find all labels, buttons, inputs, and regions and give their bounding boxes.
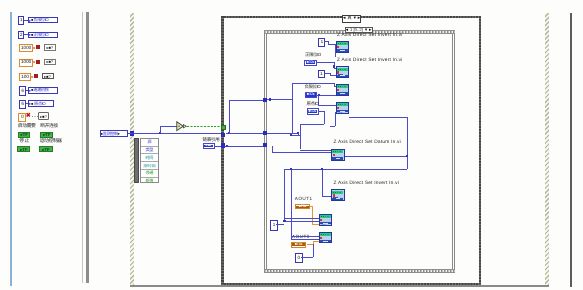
wire bbox=[24, 34, 29, 35]
stub down then to icon U4 bbox=[318, 95, 319, 105]
wire from tunnel A into sequence bbox=[267, 99, 292, 100]
sequence tunnel C bbox=[263, 143, 267, 147]
local variable 负限位IO bbox=[28, 17, 58, 24]
label AOUT1 bbox=[295, 197, 313, 202]
junction bbox=[333, 65, 335, 67]
orange wire AOUT1 to icon U7 bbox=[310, 205, 312, 208]
constant 1 (seq 2) bbox=[318, 70, 325, 79]
wire 原点IO down-left to trunk bbox=[319, 111, 324, 112]
conversion node bbox=[32, 74, 40, 79]
junction bbox=[269, 98, 271, 100]
wire const 0 to icon U8 bbox=[301, 257, 313, 258]
while loop left border bbox=[130, 13, 134, 286]
drop to icon U7 bbox=[284, 169, 285, 221]
orange wire AOUT0 to icon U8 bbox=[307, 243, 313, 246]
subVI icon U8 bbox=[319, 232, 332, 244]
subVI icon U7 bbox=[319, 214, 332, 226]
wires into icon U8 bbox=[291, 236, 319, 237]
dark right vertical line bbox=[570, 13, 572, 287]
constant 6 bbox=[19, 86, 26, 96]
label 启动需要 bbox=[18, 125, 36, 130]
dashed stub bbox=[32, 116, 38, 117]
constant 1 (seq) bbox=[318, 38, 325, 47]
constant 2 bbox=[18, 31, 24, 39]
label 运动控制器 bbox=[40, 140, 62, 145]
blue tunnel on case border (w1) bbox=[221, 133, 225, 137]
label 正限位IO bbox=[305, 53, 321, 57]
subVI icon U1 bbox=[336, 41, 349, 53]
wire bbox=[26, 90, 29, 91]
subVI icon U5 bbox=[331, 149, 344, 161]
terminal 链表引用 bbox=[203, 143, 215, 148]
wire down along icon edge bbox=[335, 44, 336, 57]
boolean terminal TF 4 bbox=[39, 146, 53, 152]
label Z Axis Direct Set Invert In.vi (1) bbox=[337, 34, 403, 39]
invoke node ? bbox=[38, 112, 49, 120]
constant 0 orange bbox=[18, 113, 26, 122]
trunk y135.1 bbox=[291, 135, 300, 136]
wire to case tunnel bbox=[215, 146, 227, 147]
label AOUT0 bbox=[292, 235, 310, 240]
comparison triangle node bbox=[176, 121, 187, 132]
local variable 高速初频 bbox=[28, 87, 58, 94]
junction bbox=[159, 132, 161, 134]
conversion node bbox=[34, 45, 42, 50]
terminal 负限位IO bbox=[305, 92, 318, 98]
left gray double vertical lines bbox=[82, 12, 84, 283]
blue tunnel on case border (w2) bbox=[221, 143, 225, 147]
right long vertical bbox=[407, 117, 408, 169]
case selector label bbox=[342, 15, 362, 23]
boolean terminal TF 2 bbox=[40, 132, 53, 138]
wire w2 inside case bbox=[226, 146, 266, 147]
label 原点IO bbox=[307, 102, 319, 106]
wire from 监测控制 to case tunnel bbox=[128, 133, 223, 134]
sequence selector label bbox=[345, 27, 373, 33]
sequence top film border bbox=[264, 30, 455, 34]
boolean wire (green dashed) to case bbox=[187, 126, 221, 127]
w1 end vertical x298.3 bbox=[298, 133, 299, 135]
subVI icon U2 bbox=[336, 66, 349, 78]
vertical x300 down to icon5 row bbox=[300, 135, 301, 149]
wires into icon U7 bbox=[284, 218, 318, 219]
icon U4 edge vertical bbox=[335, 112, 336, 126]
terminal AOUT1 bbox=[295, 204, 311, 209]
label Z Axis Direct Set Invert In.vi (3) bbox=[334, 182, 400, 187]
subVI icon U3 bbox=[336, 84, 349, 96]
junction bbox=[406, 155, 408, 157]
drop to icon U6 bbox=[322, 169, 323, 196]
wire w1 inside case bbox=[226, 133, 299, 134]
constant 1 (bottom) bbox=[270, 220, 277, 231]
icon U4 out wire to right vertical bbox=[349, 117, 407, 118]
constant 1 bbox=[18, 16, 24, 24]
sequence tunnel B bbox=[263, 131, 267, 135]
w2 vertical x271.7 bbox=[272, 146, 273, 152]
wire trunk top (y83.3) bbox=[292, 83, 334, 84]
while loop right border bbox=[545, 13, 549, 286]
local variable 原点IO bbox=[28, 100, 54, 107]
left blue panel edge line bbox=[10, 12, 11, 286]
boolean terminal TF 3 bbox=[17, 146, 30, 152]
wire const to icon U2 bbox=[324, 73, 331, 74]
label 链表引用 bbox=[203, 138, 220, 143]
constant 0 (bottom) bbox=[295, 253, 303, 262]
wire to sequence tunnel A bbox=[229, 100, 264, 101]
label Z Axis Direct Set Datum In.vi bbox=[334, 141, 401, 146]
subVI icon U6 bbox=[331, 189, 344, 201]
long vertical x292.2 bbox=[292, 83, 293, 133]
vertical from w1 up bbox=[229, 100, 230, 134]
local variable 监测控制 bbox=[100, 130, 128, 137]
terminal 原点IO bbox=[307, 108, 319, 114]
sequence tunnel A bbox=[263, 98, 267, 102]
red x node bbox=[26, 114, 32, 120]
junction bbox=[318, 94, 320, 96]
constant 6 (2) bbox=[19, 100, 26, 109]
sequence bottom film border bbox=[264, 269, 455, 273]
wire bbox=[24, 20, 29, 21]
wire bbox=[26, 103, 29, 104]
boolean terminal TF 1 bbox=[18, 132, 30, 138]
constant 100 bbox=[19, 73, 32, 81]
wire 正限位IO to icon U2 bbox=[317, 62, 334, 63]
invoke node ? bbox=[44, 59, 56, 65]
label 负限位IO bbox=[305, 85, 321, 89]
while loop bottom border bbox=[130, 285, 549, 287]
wire const to junction bbox=[276, 224, 284, 225]
junction dots on trunk bbox=[290, 134, 292, 136]
stacked sequence frame bbox=[264, 30, 455, 273]
conversion node bbox=[34, 60, 42, 65]
terminal 正限位IO bbox=[304, 60, 317, 66]
constant 1000 (2) bbox=[19, 59, 34, 67]
return wire y169 bbox=[284, 169, 406, 170]
event data node bbox=[140, 138, 160, 183]
event data node dark edge bbox=[134, 138, 140, 183]
label 断开连接 bbox=[40, 125, 58, 130]
invoke node ? bbox=[44, 44, 56, 50]
local variable 正限位IO bbox=[28, 32, 58, 39]
wire 负限位IO to icon U3 bbox=[317, 95, 336, 96]
drop to icon U8 bbox=[291, 169, 292, 239]
junction on w2 bbox=[226, 145, 228, 147]
invoke node ? bbox=[42, 73, 54, 79]
label 停止 bbox=[19, 140, 29, 145]
wire up to triangle bbox=[160, 126, 161, 133]
constant 1000 bbox=[19, 44, 34, 52]
green tunnel on case border bbox=[221, 125, 226, 130]
terminal AOUT0 bbox=[291, 242, 307, 248]
subVI icon U4 bbox=[336, 102, 349, 114]
case structure (true case) frame bbox=[221, 16, 481, 286]
wire const1 to icon U1 bbox=[324, 41, 328, 42]
icon U5 out wire right bbox=[345, 156, 407, 157]
label Z Axis Direct Set Invert In.vi (2) bbox=[337, 59, 403, 64]
tunnel on while loop border bbox=[130, 131, 134, 135]
junction on w1 bbox=[228, 132, 230, 134]
